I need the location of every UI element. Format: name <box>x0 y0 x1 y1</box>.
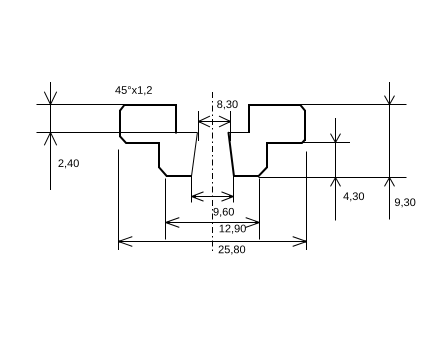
left pocket inner wall <box>175 104 177 133</box>
centerline <box>212 92 214 253</box>
right plate bottom <box>302 142 350 144</box>
9.30 arrows <box>385 96 395 105</box>
shoulder extension right <box>258 177 406 179</box>
right pocket top edge <box>248 104 301 106</box>
12.90 arrows <box>166 218 180 228</box>
slot right edge extension <box>233 175 235 202</box>
2.40 dimension line <box>50 82 52 190</box>
chamfer top of right outer wall <box>301 105 305 110</box>
9.30 dimension line <box>389 82 391 220</box>
25.80 extension lines <box>118 150 120 251</box>
12.90 dimension line <box>166 222 260 224</box>
left pocket bottom edge <box>126 142 161 144</box>
slot left edge extension <box>191 175 193 202</box>
right shoulder <box>233 175 259 177</box>
left pocket top edge <box>124 104 177 106</box>
label 4,30 <box>343 192 364 201</box>
25.80 arrows <box>119 237 133 247</box>
8.30 dimension line <box>199 121 231 123</box>
label 45°x1,2 <box>115 86 152 95</box>
label 2,40 <box>58 159 78 168</box>
top surface left <box>36 104 124 106</box>
2.40 arrows <box>44 92 56 105</box>
left step wall <box>158 142 160 168</box>
4.30 dimension line <box>335 118 337 221</box>
label 12,90 <box>220 225 246 234</box>
top surface right <box>300 104 406 106</box>
right pocket outer wall <box>304 110 306 141</box>
chamfer right shoulder to step <box>259 168 267 176</box>
label 8,30 <box>217 100 238 109</box>
label 25,80 <box>219 246 246 255</box>
mid surface left <box>36 132 197 134</box>
9.60 dimension line <box>192 196 234 198</box>
label 9,60 <box>214 208 234 217</box>
right pocket bottom edge <box>266 142 303 144</box>
8.30 arrows <box>199 116 211 127</box>
8.30 extension lines <box>198 111 200 141</box>
chamfer top of left outer wall (45x1,2) <box>120 105 124 110</box>
slot right slant edge <box>229 133 234 176</box>
left shoulder <box>166 175 192 177</box>
chamfer left step to shoulder <box>159 168 166 176</box>
right pocket inner wall <box>248 104 250 133</box>
right step wall <box>266 143 268 169</box>
9.60 arrows <box>192 192 204 201</box>
25.80 dimension line <box>119 241 307 243</box>
label 9,30 <box>395 198 415 207</box>
left pocket outer wall <box>119 110 121 137</box>
mid surface right of slot <box>229 132 249 134</box>
12.90 extension lines <box>165 178 167 239</box>
chamfer bottom of right outer wall <box>302 140 305 143</box>
4.30 arrows <box>331 134 341 143</box>
slot left slant edge <box>192 133 198 176</box>
chamfer bottom of left outer wall <box>120 137 126 143</box>
